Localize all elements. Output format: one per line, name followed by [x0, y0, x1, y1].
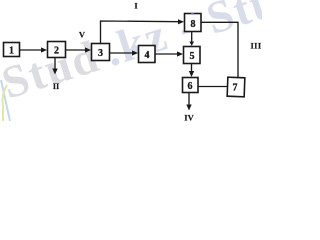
- block 3: [92, 44, 110, 61]
- arrow 4 to 5: [155, 51, 183, 56]
- arrow 1 to 2: [20, 47, 47, 52]
- wire 8 right then down to 7: [201, 22, 238, 77]
- block 5: [184, 47, 201, 64]
- svg-text:5: 5: [190, 51, 195, 62]
- svg-text:8: 8: [191, 19, 196, 30]
- watermark corner blue line: [1, 80, 10, 121]
- block 7: [227, 77, 245, 97]
- svg-text:2: 2: [54, 46, 59, 57]
- svg-text:V: V: [79, 30, 86, 40]
- svg-text:7: 7: [233, 83, 238, 94]
- blue speck above 8: [191, 13, 194, 15]
- block 4: [139, 46, 156, 63]
- svg-text:IV: IV: [184, 113, 194, 122]
- block 8: [185, 14, 202, 32]
- block 2: [48, 42, 66, 58]
- wire 3 top up and right to 8: [101, 19, 185, 43]
- svg-text:6: 6: [188, 81, 193, 92]
- wire 6 to 7: [198, 86, 228, 88]
- arrow 8 down to 5: [189, 32, 194, 46]
- arrow 5 down to 6: [189, 64, 194, 77]
- watermark Stud.kz - Stu diagonal: [0, 0, 284, 109]
- arrow 2 down to II: [52, 58, 57, 75]
- svg-text:II: II: [53, 81, 60, 91]
- svg-text:III: III: [250, 41, 261, 51]
- arrow 2 to 3: [66, 47, 91, 52]
- svg-text:3: 3: [98, 48, 103, 59]
- svg-text:1: 1: [9, 46, 14, 57]
- watermark corner yellow arc: [3, 85, 8, 121]
- arrow 3 to 4: [110, 50, 138, 55]
- arrow 6 down to IV: [186, 93, 191, 111]
- block 6: [183, 78, 199, 93]
- block 1: [4, 43, 20, 57]
- svg-text:4: 4: [145, 50, 150, 61]
